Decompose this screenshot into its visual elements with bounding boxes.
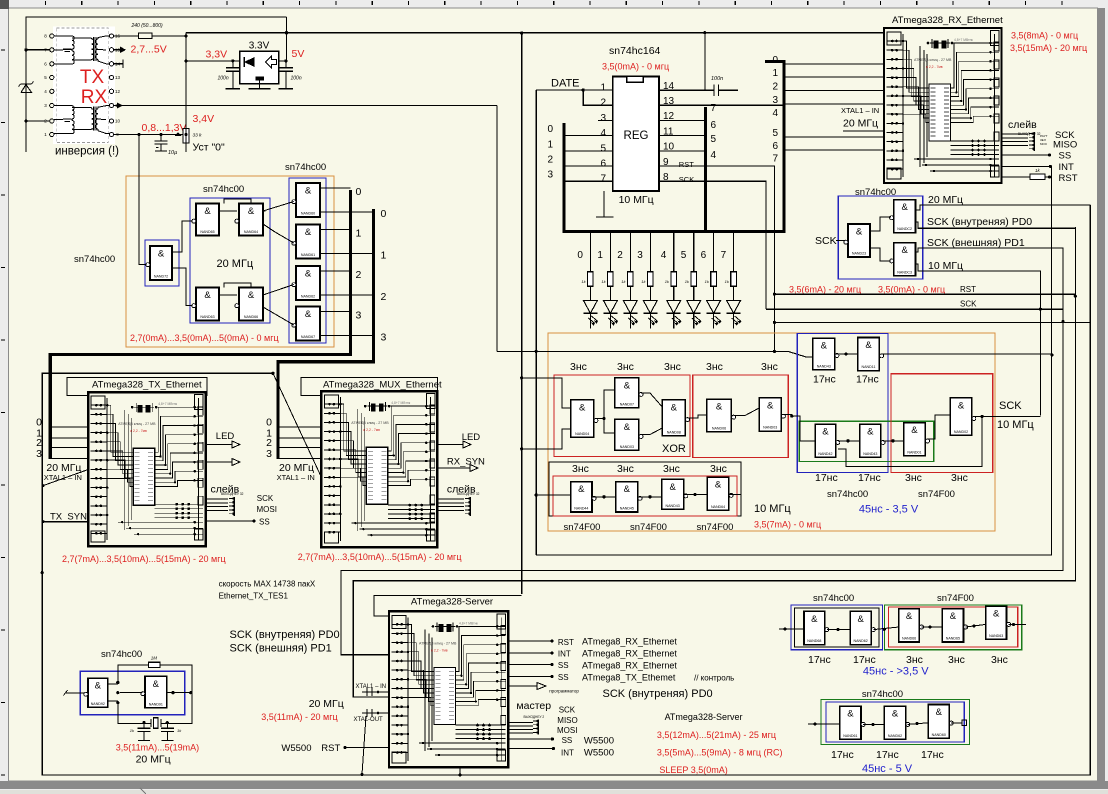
svg-text:&: & bbox=[579, 402, 586, 413]
svg-text:TX_SYN: TX_SYN bbox=[50, 512, 87, 523]
svg-text:скорость MAX 14738 пакХ: скорость MAX 14738 пакХ bbox=[219, 580, 316, 589]
title frame MUX block bbox=[301, 378, 438, 396]
nand NANDb5 bbox=[986, 606, 1011, 639]
svg-text:SCK: SCK bbox=[559, 705, 576, 714]
svg-text:7: 7 bbox=[600, 174, 606, 185]
svg-text:ATmega328_TX_Ethernet: ATmega328_TX_Ethernet bbox=[92, 380, 202, 391]
svg-text:&: & bbox=[906, 611, 913, 622]
svg-text:АТМЕДВ клмц - 27 МВ: АТМЕДВ клмц - 27 МВ bbox=[351, 421, 389, 425]
red box chain2 bbox=[693, 375, 789, 458]
wires bus to RX block bbox=[784, 64, 884, 150]
arrow LED TX 1 bbox=[206, 444, 232, 446]
svg-text:NAND43: NAND43 bbox=[666, 504, 680, 508]
svg-text:3,4V: 3,4V bbox=[193, 113, 215, 125]
svg-text:3нс: 3нс bbox=[710, 463, 727, 475]
wire TX_SYN bbox=[43, 521, 88, 523]
svg-text:NAND07: NAND07 bbox=[620, 402, 634, 406]
ruler ticks left bbox=[1, 50, 5, 775]
svg-text:NAND60: NAND60 bbox=[932, 733, 946, 737]
nand NAND07 bbox=[615, 378, 643, 408]
resistor-LED column 0 bbox=[581, 233, 598, 329]
svg-text:5: 5 bbox=[772, 128, 778, 139]
svg-text:0: 0 bbox=[577, 250, 583, 261]
svg-text:3,5(0mA) - 0 мгц: 3,5(0mA) - 0 мгц bbox=[602, 62, 669, 72]
svg-text:&: & bbox=[901, 202, 908, 213]
svg-text:100n: 100n bbox=[218, 76, 229, 82]
svg-text:MISO: MISO bbox=[557, 716, 577, 725]
capacitor osc c1 bbox=[130, 724, 151, 741]
svg-text:1: 1 bbox=[381, 250, 387, 262]
svg-text:5: 5 bbox=[711, 134, 717, 145]
arrow LED TX 2 bbox=[206, 461, 232, 463]
svg-text:6: 6 bbox=[701, 250, 707, 261]
wire reg to 5V bbox=[279, 60, 287, 62]
wires server to master comb bbox=[508, 722, 533, 733]
bottom scrollbar bbox=[0, 790, 1108, 794]
svg-text:ВЫХОДНЕУ 2: ВЫХОДНЕУ 2 bbox=[524, 715, 545, 719]
svg-text:ATmega8_RX_Ethernet: ATmega8_RX_Ethernet bbox=[582, 661, 677, 671]
svg-text:33 k: 33 k bbox=[193, 133, 203, 139]
svg-text:17нс: 17нс bbox=[876, 749, 899, 761]
wire server bottom bbox=[459, 767, 461, 775]
svg-text:3,5(11mA)...5(19mA): 3,5(11mA)...5(19mA) bbox=[116, 743, 199, 753]
svg-text:программатор: программатор bbox=[549, 689, 579, 694]
connector слейв MUX bbox=[465, 497, 470, 516]
nand NANDc2 bbox=[884, 706, 909, 739]
wires RX to comb bbox=[1002, 134, 1029, 145]
svg-text:7: 7 bbox=[711, 103, 717, 114]
nand NAND06 bbox=[707, 399, 736, 432]
nand NANDb3 bbox=[899, 609, 924, 642]
blue box mid gates bbox=[190, 198, 270, 323]
svg-text:&: & bbox=[821, 341, 828, 352]
svg-text:W5500: W5500 bbox=[281, 743, 311, 754]
svg-text:&: & bbox=[950, 611, 957, 622]
nand NAND64b bbox=[707, 477, 733, 510]
svg-text:&: & bbox=[624, 422, 631, 433]
svg-text:и 2,2 - 7мв: и 2,2 - 7мв bbox=[926, 65, 943, 69]
svg-text:NAND61: NAND61 bbox=[843, 734, 857, 738]
svg-text:&: & bbox=[865, 340, 872, 351]
svg-text:SCK (внешняя) PD1: SCK (внешняя) PD1 bbox=[230, 643, 332, 655]
svg-text:&: & bbox=[305, 269, 312, 280]
svg-text:ВЫХОДНЕУ 32: ВЫХОДНЕУ 32 bbox=[221, 492, 244, 496]
svg-text:1: 1 bbox=[597, 250, 603, 261]
svg-text:2: 2 bbox=[356, 269, 362, 281]
svg-text:&: & bbox=[305, 309, 312, 320]
svg-text:XTAL-OUT: XTAL-OUT bbox=[354, 717, 384, 723]
svg-text:20 МГц: 20 МГц bbox=[843, 118, 878, 130]
svg-text:10 МГц: 10 МГц bbox=[754, 503, 791, 515]
svg-text:100n: 100n bbox=[291, 76, 302, 82]
svg-text:sn74hc00: sn74hc00 bbox=[827, 489, 868, 500]
right gray strip bbox=[1098, 8, 1105, 788]
wire RST right bbox=[774, 293, 1075, 295]
green box 45ns bbox=[799, 421, 934, 461]
svg-text:1: 1 bbox=[772, 68, 778, 79]
nand NAND03 bbox=[615, 419, 643, 450]
svg-text:0: 0 bbox=[381, 208, 387, 220]
nand NAND08 bbox=[662, 400, 689, 436]
svg-text:INT: INT bbox=[558, 650, 571, 659]
regulator diode out bbox=[266, 56, 277, 68]
svg-text:sn74hc00: sn74hc00 bbox=[285, 162, 326, 173]
svg-text:XTAL1 – IN: XTAL1 – IN bbox=[356, 684, 387, 690]
svg-text:3нс: 3нс bbox=[617, 463, 634, 475]
wire pin16 to R240 bbox=[114, 35, 139, 37]
svg-text:&: & bbox=[204, 206, 211, 217]
wires br3 chain bbox=[808, 720, 967, 726]
svg-text:DATE: DATE bbox=[551, 78, 580, 90]
svg-text:10 МГц: 10 МГц bbox=[928, 260, 963, 272]
svg-text:2,7...5V: 2,7...5V bbox=[131, 44, 167, 56]
svg-text:3.3V: 3.3V bbox=[249, 41, 270, 52]
svg-text:NAND01: NAND01 bbox=[907, 450, 921, 454]
svg-text:&: & bbox=[958, 400, 965, 411]
svg-text:XTAL1 – IN: XTAL1 – IN bbox=[841, 106, 879, 115]
svg-text:3,5(8mA) - 0 мгц: 3,5(8mA) - 0 мгц bbox=[1011, 31, 1078, 41]
wire SCK right bbox=[766, 308, 1063, 310]
svg-text:W5500: W5500 bbox=[584, 735, 614, 746]
svg-text:NAND03: NAND03 bbox=[763, 426, 777, 430]
svg-text:&: & bbox=[811, 614, 818, 625]
svg-text:MOSI: MOSI bbox=[257, 505, 277, 514]
svg-text:3: 3 bbox=[547, 170, 553, 181]
svg-text:REG: REG bbox=[624, 130, 649, 142]
svg-text:3: 3 bbox=[266, 448, 272, 460]
svg-text:17нс: 17нс bbox=[831, 749, 854, 761]
wire big loop bbox=[42, 205, 1090, 775]
svg-text:NAND72: NAND72 bbox=[154, 275, 168, 279]
svg-text:SCK (внутреняя) PD0: SCK (внутреняя) PD0 bbox=[927, 216, 1032, 228]
svg-text:SS: SS bbox=[558, 673, 569, 682]
svg-text:NAND04: NAND04 bbox=[575, 432, 589, 436]
svg-text:&: & bbox=[867, 427, 874, 438]
thick bus v1 bbox=[50, 190, 350, 459]
svg-text:NAND67: NAND67 bbox=[301, 335, 315, 339]
wires sck internal bbox=[871, 217, 891, 261]
wire RX long line bbox=[114, 105, 497, 107]
svg-text:4: 4 bbox=[600, 128, 606, 139]
svg-text:SCK: SCK bbox=[960, 300, 977, 309]
nand NAND92 bbox=[84, 678, 108, 707]
connector мастер bbox=[533, 720, 538, 735]
nand NAND65 bbox=[192, 204, 219, 236]
svg-text:2,7(7mA)...3,5(10mA)...5(15mA): 2,7(7mA)...3,5(10mA)...5(15mA) - 20 мгц bbox=[298, 552, 462, 562]
svg-text:4,8+7 МВтнк: 4,8+7 МВтнк bbox=[158, 402, 177, 406]
crystal X1 osc bbox=[118, 718, 169, 728]
red box XOR bbox=[554, 375, 690, 457]
svg-text:1М: 1М bbox=[151, 656, 158, 661]
wires osc pair bbox=[64, 681, 193, 704]
blue box 17ns bbox=[797, 334, 888, 473]
resistor RST RX 1k bbox=[1002, 176, 1031, 178]
resistor-LED column 5 bbox=[685, 233, 702, 329]
black loop osc pair bbox=[118, 665, 192, 724]
svg-text:RST: RST bbox=[1059, 173, 1078, 184]
black box osc group bbox=[549, 462, 741, 516]
resistor-LED column 2 bbox=[621, 233, 638, 329]
svg-text:3,5(11mA) - 20 мгц: 3,5(11mA) - 20 мгц bbox=[261, 712, 337, 722]
regulator gnd lead bbox=[259, 84, 261, 89]
svg-text:RX: RX bbox=[81, 87, 108, 108]
resistor-LED column 3 bbox=[641, 233, 658, 329]
svg-text:&: & bbox=[767, 400, 774, 411]
svg-text:45нс - 3,5 V: 45нс - 3,5 V bbox=[859, 504, 919, 516]
svg-text:&: & bbox=[669, 482, 676, 493]
junction cap10u bbox=[159, 133, 162, 136]
svg-text:sn74F00: sn74F00 bbox=[630, 522, 667, 533]
ruler ticks top bbox=[46, 1, 1062, 5]
svg-text:и 2,2 - 7мв: и 2,2 - 7мв bbox=[363, 428, 380, 432]
svg-text:RST: RST bbox=[960, 285, 976, 294]
svg-text:3нс: 3нс bbox=[706, 361, 723, 373]
RX transformer T2 bbox=[54, 106, 109, 134]
svg-text:ATmega328_MUX_Ethernet: ATmega328_MUX_Ethernet bbox=[323, 380, 442, 391]
svg-text:&: & bbox=[153, 679, 160, 690]
red box br2 bbox=[889, 607, 1018, 647]
corner mark bbox=[0, 0, 9, 9]
svg-text:6: 6 bbox=[711, 120, 717, 131]
nand NAND42m bbox=[815, 424, 840, 457]
svg-text:3,3V: 3,3V bbox=[206, 49, 228, 61]
svg-text:SCK: SCK bbox=[257, 494, 274, 503]
wire DATE vert bbox=[535, 90, 537, 555]
resistor-LED column 6 bbox=[705, 233, 722, 329]
svg-text:SCK: SCK bbox=[999, 400, 1022, 412]
svg-text:&: & bbox=[671, 402, 678, 413]
capacitor C 10u bbox=[155, 135, 178, 157]
svg-text:10 МГц: 10 МГц bbox=[619, 194, 654, 206]
nand NAND91 bbox=[141, 676, 167, 708]
svg-text:20 МГц: 20 МГц bbox=[309, 698, 344, 710]
svg-text:АТМЕДВ клмц - 27 МВ: АТМЕДВ клмц - 27 МВ bbox=[118, 422, 156, 426]
wire net33 to server bbox=[374, 596, 522, 616]
nand NANDC2 bbox=[890, 200, 916, 233]
nand NAND66 bbox=[235, 288, 263, 321]
wires bus to TX block bbox=[36, 417, 88, 460]
svg-text:3нс: 3нс bbox=[617, 361, 634, 373]
wire R240 to 5V node bbox=[152, 35, 186, 37]
svg-text:1: 1 bbox=[547, 139, 553, 150]
svg-text:W5500: W5500 bbox=[584, 748, 614, 759]
resistor-LED column 4 bbox=[665, 233, 682, 329]
svg-text:АТМЕДВ клмц - 27 МВ: АТМЕДВ клмц - 27 МВ bbox=[419, 641, 457, 645]
nand NANDb2 bbox=[850, 611, 875, 644]
svg-text:sn74hc00: sn74hc00 bbox=[862, 689, 903, 700]
wire INT RX bbox=[1002, 165, 1051, 167]
wires XOR internal bbox=[522, 378, 663, 449]
nand NAND43c bbox=[662, 479, 688, 509]
thick bus bottom REG bbox=[563, 230, 786, 233]
svg-text:3нс: 3нс bbox=[761, 361, 778, 373]
svg-text:&: & bbox=[305, 186, 312, 197]
microcontroller ATmega328_RX_Ethernet bbox=[884, 28, 1002, 183]
svg-text:RST: RST bbox=[321, 743, 340, 754]
wire 10mhz out bbox=[916, 264, 1041, 415]
svg-text:&: & bbox=[248, 290, 255, 301]
nand NAND67 bbox=[292, 307, 320, 341]
resistor-LED column 7 bbox=[725, 233, 742, 329]
svg-text:3нс: 3нс bbox=[663, 463, 680, 475]
svg-text:&: & bbox=[911, 425, 918, 436]
svg-text:0: 0 bbox=[547, 124, 553, 135]
wire xtal to gnd rail bbox=[362, 716, 366, 775]
zener diode D1 bbox=[19, 82, 34, 93]
svg-text:&: & bbox=[901, 245, 908, 256]
svg-text:SCK (внешняя) PD1: SCK (внешняя) PD1 bbox=[927, 237, 1025, 249]
wires bus to REG pins4-7 bbox=[547, 124, 612, 181]
svg-text:20 МГц: 20 МГц bbox=[217, 258, 254, 270]
nand NANDb1 bbox=[804, 611, 829, 644]
nand NAND04 bbox=[571, 400, 598, 438]
nand NAND11 bbox=[858, 338, 884, 371]
wire RST reg bbox=[659, 166, 774, 351]
orange group box bbox=[126, 176, 334, 347]
wire pin2 bbox=[583, 90, 613, 105]
TX transformer T1 bbox=[54, 36, 109, 64]
svg-text:10: 10 bbox=[115, 119, 121, 124]
svg-text:NAND62: NAND62 bbox=[854, 639, 868, 643]
LED numbers bbox=[577, 250, 726, 261]
regulator U-3.3V body bbox=[240, 51, 279, 84]
blue box br3 bbox=[826, 702, 964, 742]
svg-text:инверсия (!): инверсия (!) bbox=[55, 146, 119, 158]
wire loop R2 bbox=[536, 166, 1051, 555]
svg-text:&: & bbox=[856, 227, 863, 238]
nand NAND44 bbox=[571, 482, 597, 512]
REG pin numbers left bbox=[600, 83, 606, 185]
wires 17ns pair bbox=[835, 352, 1054, 356]
wire pot bottom bbox=[185, 151, 187, 153]
nand NANDc3 bbox=[928, 705, 953, 739]
svg-text:&: & bbox=[716, 402, 723, 413]
svg-text:sn74hc00: sn74hc00 bbox=[203, 184, 244, 195]
svg-text:АТМЕДВ клмц - 27 МВ: АТМЕДВ клмц - 27 МВ bbox=[914, 58, 952, 62]
svg-text:3: 3 bbox=[381, 332, 387, 344]
svg-text:2: 2 bbox=[772, 82, 778, 93]
svg-text:NAND42: NAND42 bbox=[818, 452, 832, 456]
svg-text:&: & bbox=[857, 614, 864, 625]
wire diagonal TX xtal bbox=[43, 470, 88, 486]
svg-text:2: 2 bbox=[381, 291, 387, 303]
wire SS RX bbox=[1002, 154, 1050, 156]
svg-text:17нс: 17нс bbox=[858, 472, 881, 484]
resistor osc 1M bbox=[148, 662, 160, 667]
thick bus v2 bbox=[278, 209, 373, 459]
svg-text:NAND64: NAND64 bbox=[244, 230, 258, 234]
wires br chain bbox=[779, 613, 1026, 631]
svg-text:17нс: 17нс bbox=[813, 374, 836, 386]
wire xtal RX bbox=[843, 130, 884, 132]
wire 5V top rail bbox=[26, 17, 287, 152]
nand NANDb4 bbox=[942, 609, 967, 642]
wire SS TX bbox=[206, 520, 254, 522]
svg-text:RX_SYN: RX_SYN bbox=[447, 457, 485, 468]
svg-text:3нс: 3нс bbox=[664, 361, 681, 373]
labels 7654 bbox=[711, 103, 717, 161]
svg-text:NAND03: NAND03 bbox=[620, 445, 634, 449]
svg-text:NAND91: NAND91 bbox=[149, 702, 163, 706]
transformer pins right bbox=[109, 34, 120, 138]
svg-text:MISO: MISO bbox=[1053, 140, 1077, 151]
blue box single gate bbox=[145, 240, 179, 286]
svg-text:SCK: SCK bbox=[815, 235, 837, 247]
wires chain2 bbox=[687, 408, 793, 418]
bus numbers right bbox=[772, 55, 778, 165]
svg-text:NAND61: NAND61 bbox=[301, 253, 315, 257]
svg-text:ATmega328_RX_Ethernet: ATmega328_RX_Ethernet bbox=[892, 15, 1003, 26]
svg-text:sn74F00: sn74F00 bbox=[564, 522, 601, 533]
nand NAND01r bbox=[904, 423, 930, 456]
svg-text:2,7(7mA)...3,5(10mA)...5(15mA): 2,7(7mA)...3,5(10mA)...5(15mA) - 20 мгц bbox=[62, 554, 226, 564]
wire PD1 out bbox=[916, 248, 1064, 322]
nand NANDC3 bbox=[890, 243, 916, 276]
svg-text:NAND64: NAND64 bbox=[711, 505, 725, 509]
wire PD0 out bbox=[916, 222, 1076, 296]
svg-text:2,7(0mA)...3,5(0mA)...5(0mA) -: 2,7(0mA)...3,5(0mA)...5(0mA) - 0 мгц bbox=[130, 333, 279, 343]
svg-text:3нс: 3нс bbox=[906, 654, 923, 666]
svg-text:3нс: 3нс bbox=[905, 472, 922, 484]
wires MUX to comb bbox=[437, 499, 464, 510]
svg-text:17нс: 17нс bbox=[815, 472, 838, 484]
red box 3ns right bbox=[891, 374, 993, 473]
bottom scrollbar notch bbox=[140, 788, 146, 794]
svg-text:20 МГц: 20 МГц bbox=[928, 194, 963, 206]
svg-text:SS: SS bbox=[562, 736, 573, 745]
svg-text:RST: RST bbox=[679, 160, 694, 169]
svg-text:100n: 100n bbox=[711, 76, 723, 82]
svg-text:&: & bbox=[847, 709, 854, 720]
regulator diode in bbox=[244, 57, 255, 67]
svg-text:SS: SS bbox=[1059, 150, 1072, 161]
svg-text:NAND68: NAND68 bbox=[807, 639, 821, 643]
wires gate outputs to bus bbox=[320, 188, 374, 336]
wire pot riser bbox=[185, 33, 187, 152]
svg-text:0: 0 bbox=[772, 55, 778, 66]
svg-text:&: & bbox=[993, 609, 1000, 620]
wires TX to comb bbox=[206, 499, 228, 510]
svg-text:12: 12 bbox=[115, 89, 121, 94]
thick bus inner bbox=[704, 107, 707, 233]
svg-text:NAND92: NAND92 bbox=[91, 702, 105, 706]
wire SCK input bbox=[836, 240, 846, 242]
connector слейв TX bbox=[229, 497, 234, 516]
svg-text:SCK (внутреняя) PD0: SCK (внутреняя) PD0 bbox=[603, 688, 713, 700]
wire rx91 vert bbox=[496, 106, 498, 352]
red box osc group bbox=[553, 476, 737, 516]
svg-text:3: 3 bbox=[600, 113, 606, 124]
svg-text:3: 3 bbox=[36, 448, 42, 460]
svg-text:3нс: 3нс bbox=[572, 463, 589, 475]
svg-text:&: & bbox=[936, 707, 943, 718]
svg-text:NAND62: NAND62 bbox=[301, 295, 315, 299]
blue box right col bbox=[289, 178, 326, 343]
wire diagonal MUX xtal bbox=[273, 373, 321, 477]
nand NAND23 sck bbox=[844, 224, 870, 257]
svg-text:3: 3 bbox=[772, 95, 778, 106]
nand NAND03b bbox=[759, 398, 785, 431]
wire SS2 srv bbox=[508, 664, 552, 666]
svg-text:2: 2 bbox=[600, 98, 606, 109]
svg-text:слейв: слейв bbox=[1008, 119, 1037, 131]
svg-text:3,5(0mA) - 0 мгц: 3,5(0mA) - 0 мгц bbox=[878, 285, 945, 295]
svg-text:NAND45: NAND45 bbox=[620, 507, 634, 511]
svg-text:5: 5 bbox=[600, 143, 606, 154]
svg-text:0: 0 bbox=[356, 186, 362, 198]
svg-text:&: & bbox=[248, 206, 255, 217]
svg-text:6: 6 bbox=[772, 141, 778, 152]
